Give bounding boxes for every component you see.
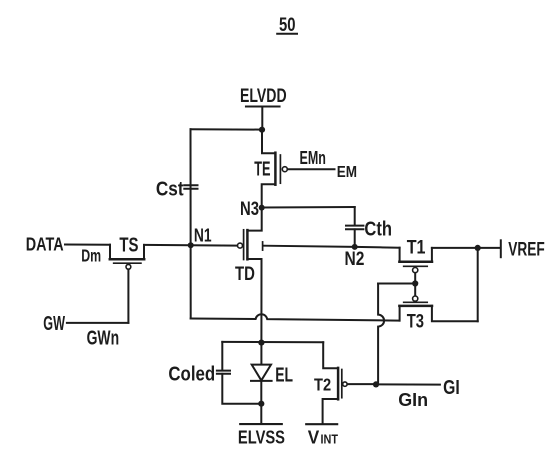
svg-text:N1: N1 [194, 226, 212, 246]
svg-text:EMn: EMn [300, 148, 326, 168]
svg-text:DATA: DATA [26, 235, 64, 255]
svg-text:TE: TE [254, 159, 270, 181]
svg-text:Coled: Coled [168, 363, 215, 385]
svg-text:TD: TD [235, 263, 255, 285]
svg-text:T1: T1 [407, 237, 426, 259]
svg-text:ELVSS: ELVSS [238, 428, 285, 448]
svg-text:EL: EL [275, 364, 293, 386]
svg-text:GW: GW [43, 313, 65, 335]
svg-text:EM: EM [337, 164, 357, 181]
svg-text:N3: N3 [240, 199, 259, 220]
svg-text:ELVDD: ELVDD [240, 85, 287, 107]
svg-text:Dm: Dm [81, 246, 101, 266]
svg-text:V: V [308, 428, 320, 448]
svg-text:GI: GI [443, 377, 460, 399]
svg-text:INT: INT [321, 432, 339, 447]
svg-text:GIn: GIn [398, 389, 428, 410]
svg-text:T2: T2 [314, 374, 331, 394]
svg-text:Cst: Cst [156, 179, 184, 201]
svg-text:VREF: VREF [508, 239, 545, 260]
svg-text:Cth: Cth [364, 219, 392, 241]
svg-text:50: 50 [279, 14, 296, 36]
svg-text:N2: N2 [345, 249, 365, 270]
svg-text:TS: TS [119, 234, 138, 256]
svg-text:GWn: GWn [87, 328, 120, 350]
svg-text:T3: T3 [407, 310, 424, 332]
